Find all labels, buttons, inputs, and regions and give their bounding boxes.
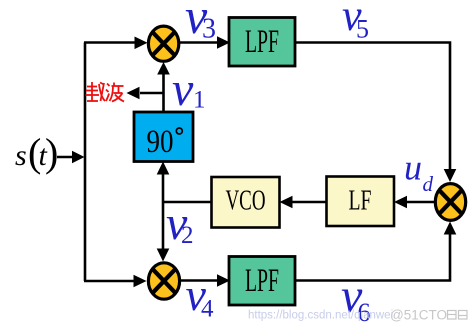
wire: left vertical bus	[84, 43, 87, 282]
node v1 label	[172, 63, 206, 116]
node ud label	[404, 148, 434, 197]
block VCO (voltage controlled oscillator)	[212, 177, 280, 228]
block LPF (top low-pass filter)	[229, 18, 295, 67]
svg-text:): )	[45, 130, 58, 175]
wire: v2 vertical bus with arrows up into 90 block and down into M2	[157, 162, 170, 262]
node v4 label	[186, 269, 215, 323]
block LF (loop filter)	[327, 177, 395, 227]
svg-text:s: s	[15, 139, 27, 172]
label s(t) input signal	[15, 130, 58, 175]
wire: M1 to top LPF	[180, 36, 230, 49]
block 90 degree phase shifter	[134, 112, 193, 162]
multiplier M2 (bottom mixer)	[148, 263, 179, 299]
svg-text:v: v	[172, 63, 194, 116]
node v2 label	[166, 197, 194, 250]
svg-text:u: u	[404, 148, 422, 188]
multiplier M3 (right mixer, phase detector)	[435, 184, 465, 221]
node v3 label	[185, 0, 216, 45]
wire: M2 to bottom LPF	[181, 274, 230, 287]
glyph zai	[86, 82, 106, 101]
svg-text:4: 4	[201, 296, 214, 323]
wire: M3 to LF	[394, 196, 434, 209]
glyph bo	[106, 83, 124, 102]
node v6 label	[341, 270, 371, 328]
watermark 51CTO badge	[390, 308, 467, 323]
block LPF (bottom low-pass filter)	[229, 257, 295, 306]
wire: top-left horizontal into mixer M1	[84, 37, 148, 50]
svg-text:1: 1	[193, 87, 206, 114]
wire: v1 from 90 block up into M1	[157, 62, 170, 112]
wire: VCO output to v2 bus (T junction)	[163, 201, 212, 203]
svg-text:d: d	[423, 172, 434, 196]
wire: top LPF to right corner and down into mixer M3	[295, 43, 456, 183]
svg-text:LF: LF	[349, 186, 372, 217]
multiplier M1 (top mixer)	[148, 26, 178, 61]
svg-text:https://blog.csdn.net/qianwei: https://blog.csdn.net/qianwei	[248, 310, 393, 322]
svg-text:VCO: VCO	[226, 186, 266, 217]
wire: bottom LPF right and up into M3	[295, 222, 456, 281]
svg-text:2: 2	[181, 222, 194, 249]
node v5 label	[342, 0, 369, 44]
wire: LF to VCO	[280, 196, 327, 209]
svg-text:5: 5	[356, 15, 369, 44]
svg-text:90: 90	[147, 124, 174, 160]
svg-text:LPF: LPF	[245, 24, 279, 60]
wire: s(t) input arrow	[57, 151, 85, 163]
wire: carrier tap arrow to the left	[127, 87, 164, 100]
wire: bottom-left horizontal into mixer M2	[84, 275, 147, 288]
label carrier (Chinese zai bo) in red	[86, 82, 125, 102]
svg-text:3: 3	[202, 14, 216, 45]
svg-text:@51CTO: @51CTO	[390, 308, 447, 323]
svg-text:LPF: LPF	[245, 263, 279, 299]
